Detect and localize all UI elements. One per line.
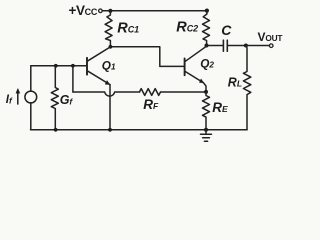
svg-text:If: If: [6, 94, 13, 106]
svg-text:VOUT: VOUT: [258, 30, 283, 44]
ground: [201, 130, 212, 141]
node top RC2 dot: [205, 9, 209, 13]
If arrow: [16, 89, 20, 104]
resistor RC1: [105, 11, 112, 47]
svg-text:RC1: RC1: [117, 21, 139, 37]
wire bottom rail: [31, 129, 248, 131]
node Q1 collector dot: [109, 45, 113, 49]
node top RC1 dot: [108, 9, 112, 13]
node RE bottom dot: [204, 128, 208, 132]
wire Q1 base (input node rail): [31, 65, 87, 67]
resistor RC2: [203, 11, 210, 46]
svg-text:C: C: [221, 22, 232, 38]
node Gf bottom dot: [54, 128, 58, 132]
resistor RE: [203, 92, 210, 130]
svg-text:RC2: RC2: [176, 20, 198, 36]
node RF top dot: [71, 64, 75, 68]
resistor RF: [140, 89, 161, 96]
node Q2 emitter dot: [204, 90, 208, 94]
wire Q1 collector to Q2 base: [110, 47, 183, 67]
wire base node down to RF: [72, 66, 74, 92]
wire collector node to capacitor: [207, 45, 223, 47]
node Gf top dot: [54, 64, 58, 68]
capacitor C: [223, 40, 227, 51]
node Q1 emitter bottom dot: [108, 128, 112, 132]
svg-text:+VCC: +VCC: [69, 3, 98, 18]
wire top rail: [102, 10, 207, 12]
resistor RL: [243, 46, 250, 130]
Vout terminal circle: [269, 44, 273, 48]
wire RF left with hop over emitter wire: [73, 92, 140, 96]
svg-text:Gf: Gf: [60, 93, 74, 107]
wire Q1 emitter down: [109, 85, 111, 130]
svg-text:RF: RF: [143, 97, 159, 112]
wire RF right to Q2 emitter node: [161, 91, 207, 93]
transistor Q2: [185, 46, 207, 92]
transistor Q1: [87, 47, 110, 85]
svg-text:RE: RE: [212, 100, 228, 115]
wire capacitor to Vout: [228, 45, 269, 47]
resistor Gf: [51, 66, 58, 130]
Vcc terminal circle: [99, 9, 103, 13]
svg-text:Q1: Q1: [102, 59, 116, 73]
svg-text:RL: RL: [228, 75, 242, 89]
svg-text:Q2: Q2: [200, 56, 214, 70]
node Q2 collector dot: [205, 44, 209, 48]
node RL top dot: [244, 44, 248, 48]
current source If: [25, 66, 37, 130]
